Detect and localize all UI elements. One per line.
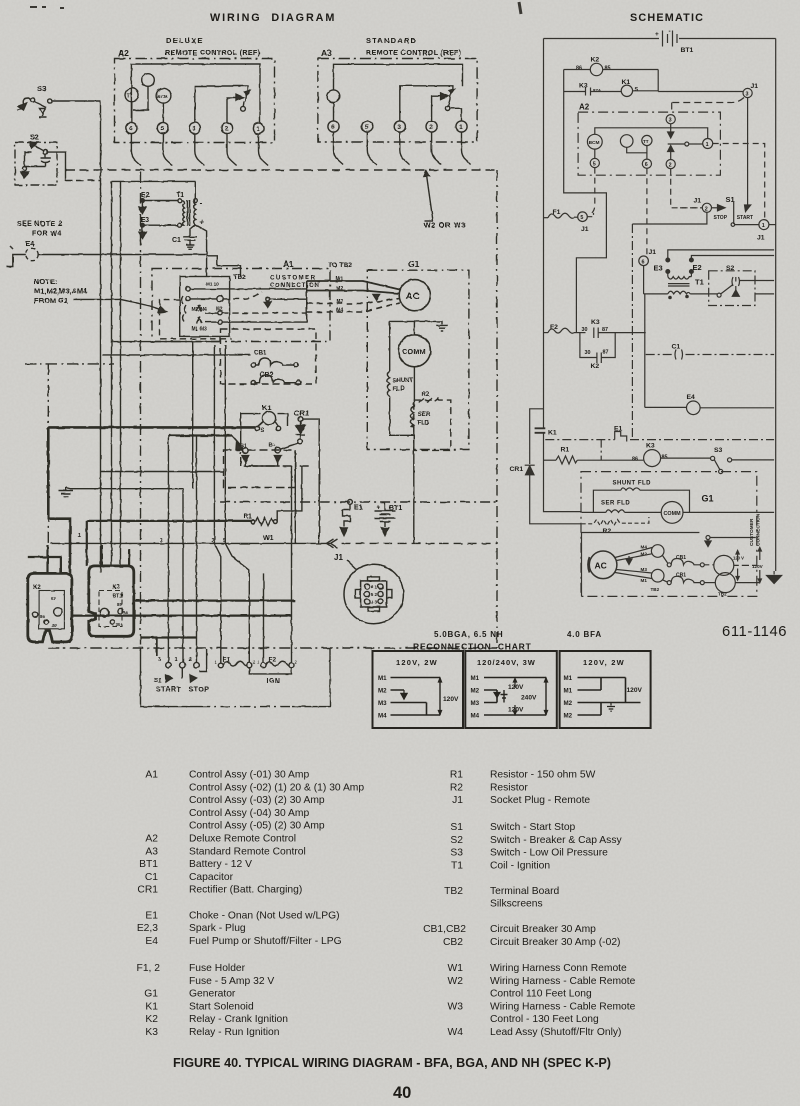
terminal 2 of A2: [221, 122, 232, 133]
svg-text:TB2: TB2: [651, 587, 660, 592]
svg-text:Fuel Pump or Shutoff/Filter -: Fuel Pump or Shutoff/Filter - LPG: [189, 936, 342, 947]
svg-text:C1: C1: [672, 344, 681, 351]
terminal 1 of A3: [456, 121, 467, 132]
svg-text:R1: R1: [561, 447, 570, 454]
svg-text:Rectifier (Batt. Charging): Rectifier (Batt. Charging): [189, 885, 302, 896]
wire from T1/E4 junction to control assembly: [207, 256, 241, 277]
svg-text:M2: M2: [564, 700, 573, 707]
svg-text:Resistor: Resistor: [490, 782, 528, 793]
svg-text:CB1: CB1: [254, 350, 267, 357]
svg-text:120V, 2W: 120V, 2W: [396, 658, 438, 667]
battery BT1 (schematic): [544, 28, 776, 54]
svg-text:5: 5: [580, 215, 583, 221]
svg-text:30: 30: [585, 350, 591, 356]
svg-text:START: START: [737, 215, 753, 221]
svg-text:A1: A1: [283, 259, 294, 269]
svg-text:CONNECTION: CONNECTION: [270, 282, 320, 289]
svg-text:WIRING DIAGRAM: WIRING DIAGRAM: [210, 12, 336, 24]
terminal 5 of A2: [157, 122, 168, 133]
svg-text:TT: TT: [643, 139, 649, 144]
svg-text:1: 1: [375, 584, 378, 589]
svg-text:E3: E3: [654, 264, 663, 273]
svg-text:T1: T1: [176, 192, 184, 199]
svg-text:R2: R2: [450, 782, 463, 793]
svg-text:S1: S1: [154, 678, 162, 685]
svg-text:4: 4: [371, 599, 374, 604]
socket plug J1 detail: [334, 553, 403, 624]
svg-text:A3: A3: [145, 846, 158, 857]
svg-text:Fuse Holder: Fuse Holder: [189, 963, 246, 974]
wire vertical to relay bank: [120, 181, 122, 566]
svg-text:Wiring Harness Conn Remote: Wiring Harness Conn Remote: [490, 963, 627, 974]
wire second vertical down to relay bank: [111, 181, 113, 566]
svg-text:611-1146: 611-1146: [722, 624, 787, 640]
svg-text:G1: G1: [144, 989, 158, 1000]
svg-text:+: +: [199, 218, 204, 227]
harness leader W2 OR W3 label: [424, 171, 467, 230]
svg-text:REMOTE CONTROL (REF): REMOTE CONTROL (REF): [165, 48, 261, 57]
dimension 120V upper: [733, 551, 744, 581]
svg-text:E4: E4: [25, 239, 35, 248]
meter BCM in A2: [156, 88, 171, 122]
wire R1 feed (heavy): [87, 520, 252, 522]
svg-text:BT1: BT1: [681, 47, 694, 54]
svg-text:CR1: CR1: [510, 466, 524, 473]
chart box 120V 2W (left): [373, 651, 464, 728]
capacitor C1: [172, 225, 197, 250]
wire relay bank feeders: [28, 545, 296, 656]
svg-text:40: 40: [393, 1084, 411, 1102]
svg-text:J1: J1: [334, 553, 343, 562]
terminal 5 of A3: [362, 121, 373, 132]
terminal 3 of A2 (schematic): [666, 115, 675, 138]
svg-text:1: 1: [459, 124, 463, 131]
svg-text:E1: E1: [145, 910, 158, 921]
svg-text:Socket Plug - Remote: Socket Plug - Remote: [490, 795, 590, 806]
svg-text:M3: M3: [641, 567, 648, 572]
svg-text:T1: T1: [695, 278, 704, 287]
svg-text:B+: B+: [269, 443, 276, 449]
relay contact K3 87A (schematic): [564, 83, 622, 96]
wire terminal 2 hook: [199, 649, 206, 672]
svg-text:FROM G1: FROM G1: [34, 296, 68, 305]
svg-text:Control - 130 Feet Long: Control - 130 Feet Long: [490, 1014, 599, 1025]
svg-text:CB1,CB2: CB1,CB2: [423, 924, 466, 935]
fuel pump E4 (schematic): [645, 394, 774, 415]
meter TT (schematic): [642, 135, 652, 159]
svg-text:FLD: FLD: [393, 387, 405, 393]
ground at lower left: [59, 488, 184, 497]
solenoid coil K1 (schematic): [621, 79, 658, 97]
deluxe remote control A2 (REF) box: [115, 36, 275, 143]
svg-text:30: 30: [52, 623, 57, 628]
inner field loop with ground: [390, 321, 448, 371]
svg-text:NOTE:: NOTE:: [34, 277, 57, 286]
shunt field (schematic): [593, 481, 689, 513]
svg-text:J1: J1: [581, 226, 589, 233]
wire schematic outer right: [775, 39, 777, 572]
svg-text:CR1: CR1: [137, 885, 158, 896]
svg-text:S3: S3: [450, 848, 463, 859]
lamp (schematic A2): [620, 135, 647, 153]
switch contacts in A2: [195, 86, 250, 122]
svg-text:5.0BGA, 6.5 NH: 5.0BGA, 6.5 NH: [434, 630, 503, 639]
svg-text:Wiring Harness - Cable Remote: Wiring Harness - Cable Remote: [490, 1001, 636, 1012]
svg-text:86: 86: [632, 457, 638, 463]
standard remote control A3 (REF) box: [318, 36, 477, 142]
svg-text:Control Assy (-02) (1) 20 & (1: Control Assy (-02) (1) 20 & (1) 30 Amp: [189, 782, 364, 793]
wire T1 positive to C1 and down: [195, 225, 206, 256]
wire T1 negative up and left to S3 vertical: [112, 181, 196, 198]
fuel shutoff E4 (W4 lead): [7, 248, 207, 266]
wire M4 dashed line to generator: [307, 303, 400, 314]
start solenoid K1: [101, 403, 311, 543]
switch contacts in A3: [400, 86, 462, 121]
svg-text:E2,3: E2,3: [137, 923, 158, 934]
svg-text:2: 2: [429, 124, 433, 131]
terminal 2 of A3: [426, 121, 437, 132]
svg-text:3: 3: [397, 124, 401, 131]
svg-text:W2 OR W3: W2 OR W3: [424, 221, 467, 230]
svg-text:STANDARD: STANDARD: [366, 36, 417, 45]
svg-text:BCM: BCM: [157, 94, 168, 100]
socket J1 pin 3: [743, 83, 758, 98]
svg-text:Control Assy (-03) (2) 30 Amp: Control Assy (-03) (2) 30 Amp: [189, 795, 325, 806]
note text M1 M2 M3 M4 FROM G1 with leader: [34, 277, 167, 313]
svg-text:6: 6: [371, 584, 374, 589]
svg-text:M1: M1: [471, 675, 480, 682]
svg-text:M3: M3: [378, 700, 387, 707]
svg-text:87A: 87A: [593, 88, 602, 93]
circuit breaker CB1: [251, 350, 298, 368]
relay coil K2 (schematic): [564, 57, 659, 76]
svg-text:M2: M2: [564, 713, 573, 720]
ground in customer connection: [264, 297, 307, 307]
boundary dash-dot to E1/BT1: [220, 501, 497, 503]
meter BCM (schematic): [587, 134, 602, 158]
svg-text:TO TB2: TO TB2: [328, 262, 352, 269]
svg-text:M2: M2: [471, 688, 480, 695]
svg-text:3: 3: [746, 92, 749, 98]
svg-text:Spark - Plug: Spark - Plug: [189, 923, 246, 934]
svg-text:SEE NOTE 2: SEE NOTE 2: [17, 221, 62, 228]
svg-text:CB2: CB2: [443, 937, 463, 948]
battery BT1 (wiring): [375, 502, 403, 536]
terminal row M1 M3 on TB2: [192, 281, 307, 333]
wire W1 harness line: [50, 535, 337, 548]
svg-text:5: 5: [161, 126, 165, 133]
svg-text:K2: K2: [591, 363, 600, 370]
svg-text:M1,M2,M3,&M4: M1,M2,M3,&M4: [34, 287, 88, 296]
svg-text:J1: J1: [757, 235, 765, 242]
svg-text:M1: M1: [378, 675, 387, 682]
svg-text:Battery - 12 V: Battery - 12 V: [189, 859, 252, 870]
svg-text:3: 3: [160, 538, 163, 544]
wire A2 internal top bus: [131, 64, 260, 123]
svg-text:AC: AC: [406, 291, 421, 302]
wire dashed J1-3 to A2 pin3: [672, 98, 744, 114]
svg-text:Resistor - 150 ohm 5W: Resistor - 150 ohm 5W: [490, 770, 596, 781]
svg-text:TT: TT: [127, 94, 133, 100]
circuit breaker CB1 (schematic): [667, 573, 760, 597]
svg-text:TB2: TB2: [718, 592, 727, 597]
wire terminal 1 stub: [181, 668, 183, 679]
generator G1 box (schematic): [581, 472, 757, 597]
svg-text:M4: M4: [378, 713, 387, 720]
svg-text:Control Assy (-04) 30 Amp: Control Assy (-04) 30 Amp: [189, 808, 309, 819]
svg-text:120V: 120V: [508, 684, 524, 691]
svg-text:5: 5: [593, 162, 596, 168]
svg-text:M4: M4: [471, 713, 480, 720]
svg-text:E4: E4: [145, 936, 158, 947]
lamp (indicator) in A2: [133, 74, 154, 110]
relay K2 crank connector: [28, 573, 72, 642]
socket J1 pin 1: [731, 220, 776, 242]
dimension 120V right: [744, 548, 764, 583]
svg-text:W1: W1: [448, 963, 464, 974]
legend left column: [137, 770, 161, 1039]
terminal 6 of A2: [126, 122, 137, 133]
wire main vertical from S3 down to relay bank: [100, 101, 102, 573]
svg-text:E2: E2: [693, 263, 702, 272]
svg-text:Fuse - 5 Amp 32 V: Fuse - 5 Amp 32 V: [189, 976, 274, 987]
svg-text:K1: K1: [262, 403, 272, 412]
svg-text:G1: G1: [702, 494, 714, 504]
capacitor C1 (schematic): [646, 344, 774, 360]
ground at right rail: [767, 571, 782, 584]
wire K2 branch verticals: [564, 70, 659, 92]
note text SEE NOTE 2 FOR W4: [17, 221, 62, 248]
terminal 6 of A3: [328, 121, 339, 132]
relay contact K1 (schematic): [535, 427, 582, 512]
svg-text:87: 87: [51, 596, 56, 601]
svg-text:Control Assy (-01) 30 Amp: Control Assy (-01) 30 Amp: [189, 770, 309, 781]
wire schematic outer left: [543, 39, 545, 428]
svg-text:BT1: BT1: [113, 594, 123, 600]
reconnection chart headings: [413, 630, 602, 652]
relay contact K3 30-87 (schematic): [582, 319, 646, 338]
wire J1-2 return to coil branch: [632, 212, 707, 224]
svg-text:85: 85: [605, 66, 611, 72]
svg-text:T1: T1: [451, 860, 463, 871]
svg-text:M1 10: M1 10: [206, 282, 219, 287]
svg-text:K2: K2: [591, 57, 600, 64]
generator commutator COMM: [398, 321, 430, 366]
svg-text:Standard Remote Control: Standard Remote Control: [189, 846, 306, 857]
svg-text:Lead Assy (Shutoff/Fltr Only): Lead Assy (Shutoff/Fltr Only): [490, 1027, 621, 1038]
svg-text:+: +: [655, 31, 659, 38]
contact and terminal 1 of A2 (schematic): [668, 139, 713, 149]
svg-text:SHUNT FLD: SHUNT FLD: [613, 481, 652, 487]
svg-text:Capacitor: Capacitor: [189, 872, 234, 883]
wire K1 S1 feed: [168, 436, 243, 450]
svg-text:Generator: Generator: [189, 989, 236, 1000]
svg-text:M1: M1: [641, 578, 648, 583]
rectifier CR1 (schematic): [510, 409, 582, 524]
spark plug E3: [139, 217, 178, 238]
svg-text:S2: S2: [30, 133, 39, 142]
svg-text:W1: W1: [263, 535, 274, 542]
svg-text:S3: S3: [714, 447, 723, 454]
svg-text:Coil - Ignition: Coil - Ignition: [490, 860, 550, 871]
terminal row M1 10 on TB2: [186, 282, 307, 292]
svg-text:CR1: CR1: [294, 409, 309, 418]
svg-text:C1: C1: [145, 872, 158, 883]
svg-text:S2: S2: [450, 835, 463, 846]
svg-text:R1: R1: [450, 770, 463, 781]
svg-text:W4: W4: [448, 1027, 464, 1038]
svg-text:Switch - Breaker & Cap Assy: Switch - Breaker & Cap Assy: [490, 835, 622, 846]
svg-text:M2: M2: [378, 688, 387, 695]
svg-text:5: 5: [365, 124, 369, 131]
svg-text:6: 6: [331, 124, 335, 131]
svg-text:BCM: BCM: [589, 140, 600, 146]
svg-text:E4: E4: [687, 394, 696, 401]
svg-text:E1: E1: [354, 505, 363, 512]
svg-text:K2: K2: [145, 1014, 158, 1025]
terminal row M2,M4 on TB2: [186, 292, 262, 313]
svg-text:COMM: COMM: [402, 347, 426, 356]
series field winding: [411, 367, 431, 544]
wire dashed A2 pigtails: [589, 144, 765, 256]
svg-text:120V: 120V: [443, 696, 459, 703]
svg-text:5: 5: [371, 592, 374, 597]
relay coil K3 (schematic): [632, 443, 711, 467]
svg-text:S: S: [635, 87, 639, 93]
wire K1 S feed (heavy): [48, 426, 255, 429]
svg-text:J1: J1: [694, 198, 702, 205]
ignition coil T1 (schematic): [644, 277, 710, 299]
spark plug E2: [139, 192, 178, 214]
wire M1 line to generator: [307, 277, 400, 290]
svg-text:2: 2: [189, 657, 192, 663]
svg-text:M1: M1: [564, 688, 573, 695]
svg-text:J1: J1: [649, 249, 657, 256]
svg-text:TB2: TB2: [233, 274, 246, 281]
terminal 5 of A2 (schematic): [590, 158, 599, 167]
svg-text:2: 2: [375, 592, 378, 597]
wire K3 87A leg down to F2 node: [564, 92, 607, 333]
svg-text:J1: J1: [452, 795, 463, 806]
svg-text:K3: K3: [579, 83, 588, 90]
svg-text:G1: G1: [408, 259, 420, 269]
wire K1 row to J1-3: [658, 91, 743, 93]
svg-text:-: -: [200, 199, 203, 208]
wire harness boundary dash-dot verticals: [25, 170, 497, 648]
svg-text:86: 86: [124, 610, 129, 615]
svg-text:Control 110 Feet Long: Control 110 Feet Long: [490, 989, 592, 1000]
wire dash-dot branch vertical: [631, 224, 633, 440]
commutator COMM (schematic): [661, 502, 774, 524]
svg-text:R1: R1: [243, 514, 252, 521]
chart box 120V 2W (right): [560, 651, 651, 728]
fuse F2: [257, 657, 298, 668]
wire CB feed lines: [112, 341, 221, 343]
svg-text:K1: K1: [145, 1001, 158, 1012]
wire pigtails from A3 terminals to harness: [334, 132, 472, 164]
choke E1 (schematic) on dash-dot line: [545, 426, 774, 461]
wire A2 internal bus (schematic): [595, 128, 708, 139]
svg-text:2: 2: [705, 206, 708, 212]
svg-text:K3: K3: [145, 1027, 158, 1038]
terminal 3 of A3: [394, 121, 405, 132]
svg-text:3: 3: [669, 118, 672, 124]
svg-text:M1: M1: [564, 675, 573, 682]
wire IGN jumper: [141, 648, 331, 707]
svg-text:30: 30: [116, 622, 121, 627]
svg-text:6: 6: [645, 162, 648, 168]
svg-text:M3: M3: [471, 700, 480, 707]
svg-text:85: 85: [117, 602, 122, 607]
choke E1: [340, 500, 362, 536]
svg-text:FOR W4: FOR W4: [32, 231, 62, 238]
terminal row M3 on TB2: [197, 305, 307, 316]
stator AC (schematic): [582, 533, 700, 597]
spark plug E2 (schematic): [690, 256, 775, 277]
svg-text:Start Solenoid: Start Solenoid: [189, 1001, 254, 1012]
svg-text:M1 M3: M1 M3: [192, 327, 208, 333]
terminal 1 of A2: [253, 123, 264, 134]
chart box 120/240V 3W (middle): [465, 651, 557, 728]
terminal board TB2 box: [180, 274, 246, 336]
svg-text:120 V: 120 V: [733, 556, 744, 561]
svg-text:6: 6: [129, 126, 133, 133]
switch S2 breaker and cap assy: [15, 133, 101, 186]
wire pigtails from A2 terminals to harness: [131, 134, 268, 166]
svg-text:S1: S1: [450, 822, 463, 833]
neutral pigtail with ground: [705, 536, 756, 547]
wire M3 dashed line to generator: [307, 299, 400, 306]
svg-text:W2: W2: [448, 976, 464, 987]
customer connection vertical text: [749, 513, 762, 546]
svg-text:86: 86: [40, 614, 45, 619]
switch S3 start-stop: [17, 84, 101, 117]
wire M2 line to generator: [307, 286, 400, 300]
svg-text:S3: S3: [37, 84, 46, 93]
shunt field winding: [387, 372, 414, 436]
svg-text:COMM: COMM: [664, 511, 682, 517]
svg-text:Deluxe Remote Control: Deluxe Remote Control: [189, 834, 296, 845]
svg-text:2: 2: [211, 538, 214, 544]
svg-text:A2: A2: [118, 48, 129, 58]
resistor R1 (schematic): [544, 447, 644, 465]
fuse F2 (schematic): [544, 324, 586, 333]
svg-text:F1, 2: F1, 2: [137, 963, 161, 974]
svg-text:SHUNT: SHUNT: [393, 378, 414, 384]
terminal 2 of A2 (schematic): [666, 146, 675, 169]
meter TT in A2: [125, 88, 139, 122]
switch S2 breaker points (schematic): [709, 265, 774, 306]
svg-text:1: 1: [78, 533, 81, 539]
rectifier CR1: [280, 409, 319, 544]
svg-text:Relay - Crank Ignition: Relay - Crank Ignition: [189, 1014, 288, 1025]
svg-text:J1: J1: [751, 83, 759, 90]
svg-text:A1: A1: [145, 770, 158, 781]
generator G1 box: [367, 259, 469, 450]
scan artifacts: [10, 2, 521, 249]
svg-text:2: 2: [669, 163, 672, 169]
legend right column: [423, 770, 466, 1039]
svg-text:R2: R2: [422, 392, 430, 398]
ignition coil T1: [112, 181, 207, 255]
remote A2 box (schematic): [578, 103, 720, 176]
svg-text:Choke - Onan (Not Used w/LPG): Choke - Onan (Not Used w/LPG): [189, 910, 340, 921]
fuse F1 (schematic): [544, 209, 594, 233]
svg-text:BT1: BT1: [139, 859, 158, 870]
svg-text:120V, 2W: 120V, 2W: [583, 658, 625, 667]
svg-text:K3: K3: [646, 443, 655, 450]
socket J1 pin 6: [639, 249, 656, 294]
